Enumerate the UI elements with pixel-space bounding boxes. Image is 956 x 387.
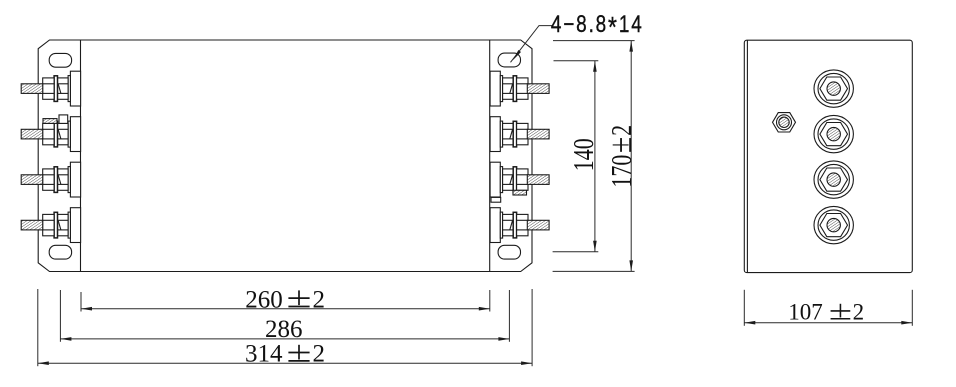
bolt 2 bbox=[814, 115, 853, 152]
body left edge bbox=[80, 40, 82, 272]
svg-text:2: 2 bbox=[853, 300, 865, 325]
side view body bbox=[744, 40, 912, 272]
terminal R4 stud bbox=[527, 220, 549, 230]
terminal L3 stud bbox=[21, 175, 43, 185]
terminal R1 nut stack bbox=[490, 71, 528, 106]
dim 170 line bbox=[630, 41, 632, 272]
arrow dim286 right bbox=[498, 337, 509, 341]
terminal L2 earth washer strip bbox=[43, 119, 57, 124]
svg-text:140: 140 bbox=[570, 138, 600, 171]
arrow dim107 right bbox=[901, 321, 912, 325]
terminal L3 nut stack bbox=[43, 162, 81, 197]
arrow dim107 left bbox=[744, 321, 755, 325]
dim text 170 (rotated) bbox=[608, 125, 638, 188]
terminal L4 nut stack bbox=[43, 208, 81, 243]
dim 286 extension lines bbox=[59, 290, 61, 342]
terminal L2 stud bbox=[21, 129, 43, 139]
terminal R3 nut stack bbox=[490, 162, 528, 197]
dim 107 line bbox=[744, 322, 912, 324]
arrow dim314 right bbox=[521, 361, 532, 365]
arrow dim260 right bbox=[479, 307, 490, 311]
arrow dim286 left bbox=[60, 337, 71, 341]
dim text 140 (rotated) bbox=[570, 138, 600, 171]
svg-text:286: 286 bbox=[265, 316, 303, 343]
arrow dim170 bottom bbox=[629, 260, 633, 271]
dim text 107 bbox=[788, 300, 864, 325]
svg-text:2: 2 bbox=[313, 286, 326, 313]
terminal L1 stud bbox=[21, 84, 43, 94]
arrow dim314 left bbox=[38, 361, 49, 365]
bolt 1 bbox=[814, 70, 853, 107]
bolt 3 bbox=[814, 161, 853, 198]
svg-text:260: 260 bbox=[245, 286, 283, 313]
terminal R3 earth tab bbox=[491, 197, 501, 202]
side view flange edge line bbox=[746, 40, 748, 272]
dim 140 extension lines bbox=[554, 60, 599, 62]
dim 314 extension lines bbox=[37, 289, 39, 366]
terminal R2 stud bbox=[527, 129, 549, 139]
dim text 260 bbox=[245, 286, 325, 367]
ground stud bbox=[773, 113, 796, 132]
terminal R3 stud bbox=[527, 175, 549, 185]
terminal L1 nut stack bbox=[43, 71, 81, 106]
arrow dim140 bottom bbox=[593, 241, 597, 252]
side view terminal bolts bbox=[773, 70, 854, 244]
leader line for slot callout bbox=[511, 26, 554, 63]
mounting slot bottom-left bbox=[49, 245, 71, 259]
mounting slot top-right bbox=[498, 53, 520, 67]
svg-text:107: 107 bbox=[788, 300, 823, 325]
mounting slot bottom-right bbox=[498, 245, 520, 259]
arrow dim170 top bbox=[629, 41, 633, 52]
dim 314 line bbox=[38, 362, 532, 364]
terminal R3 earth washer strip bbox=[513, 190, 527, 195]
bolt 4 bbox=[814, 206, 853, 243]
dim 140 line bbox=[594, 61, 596, 252]
terminal R4 nut stack bbox=[490, 208, 528, 243]
svg-text:170: 170 bbox=[608, 155, 638, 188]
terminal R1 stud bbox=[527, 84, 549, 94]
dim 107 extension lines bbox=[743, 290, 745, 326]
dim 170 extension lines bbox=[553, 40, 635, 42]
arrow leader bbox=[513, 50, 521, 60]
mounting slot top-left bbox=[49, 53, 71, 67]
dim 260 extension lines bbox=[80, 292, 82, 312]
terminal L2 earth tab bbox=[59, 115, 68, 124]
terminal R2 nut stack bbox=[490, 117, 528, 152]
arrow dim140 top bbox=[593, 61, 597, 72]
body right edge bbox=[489, 40, 491, 272]
svg-text:2: 2 bbox=[608, 125, 638, 136]
arrow dim260 left bbox=[81, 307, 92, 311]
filter body front view outline bbox=[38, 40, 532, 272]
svg-text:314: 314 bbox=[245, 341, 283, 368]
dim 286 line bbox=[60, 338, 509, 340]
terminal L2 nut stack bbox=[43, 117, 81, 152]
terminal L4 stud bbox=[21, 220, 43, 230]
svg-text:2: 2 bbox=[313, 341, 326, 368]
dim 260 line bbox=[81, 308, 490, 310]
